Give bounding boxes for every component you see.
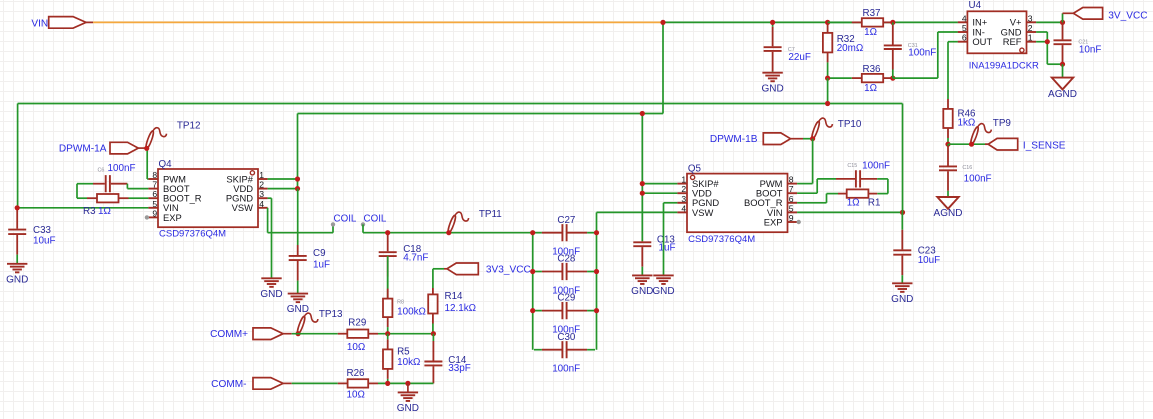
svg-text:TP12: TP12 (177, 120, 201, 131)
net flag COMM- (211, 378, 292, 391)
junction VIN C33 (15, 205, 20, 210)
svg-text:3: 3 (259, 189, 264, 199)
svg-text:4: 4 (962, 13, 967, 23)
svg-text:COIL: COIL (334, 213, 357, 224)
wire V+ to node (1036, 21, 1062, 23)
wire VDD drop to Q4 (297, 114, 299, 189)
svg-text:100nF: 100nF (108, 163, 136, 174)
resistor R32 (823, 22, 863, 78)
wire VIN top right (663, 21, 958, 23)
svg-text:3: 3 (681, 194, 686, 204)
value C6 100nF (108, 163, 136, 174)
net label COIL A (334, 213, 357, 224)
wire COMM- b (378, 382, 433, 384)
junction Q5 VIN (900, 210, 905, 215)
capacitor C31 (884, 22, 937, 78)
svg-text:3V3_VCC: 3V3_VCC (486, 264, 531, 275)
wire COMM+ b (378, 333, 433, 335)
wire 3V3_VCC left (433, 268, 444, 270)
svg-text:100nF: 100nF (908, 47, 936, 58)
junction stack right 310.6 (594, 308, 599, 313)
capacitor C29 (534, 293, 595, 336)
junction REF-GND (1045, 39, 1050, 44)
capacitor C21 (1054, 22, 1102, 64)
resistor R5 (383, 334, 420, 384)
wire Q5 BOOT elbow h (797, 192, 817, 194)
resistor R36 (828, 64, 893, 94)
test point TP11 (447, 209, 502, 233)
svg-text:R29: R29 (348, 318, 366, 329)
svg-text:R5: R5 (397, 346, 410, 357)
resistor R37 (828, 8, 893, 38)
ground GND C23 (891, 283, 913, 305)
wire OUT h (948, 41, 958, 43)
wire VSW to COIL (268, 232, 333, 234)
svg-text:GND: GND (397, 403, 419, 414)
wire Q5 PGND a (664, 202, 678, 204)
capacitor C13 (633, 234, 675, 275)
junction stack left 310.6 (530, 308, 535, 313)
svg-text:100nF: 100nF (552, 364, 580, 375)
wire C21 to AGND (1062, 64, 1064, 77)
capacitor C33 (8, 208, 55, 264)
test point TP13 (296, 309, 343, 334)
svg-text:GND: GND (891, 294, 913, 305)
svg-text:U4: U4 (969, 0, 982, 11)
ground GND C33 (6, 264, 28, 286)
wire IN- h (938, 31, 958, 33)
junction R37 right (890, 20, 895, 25)
svg-text:1Ω: 1Ω (864, 83, 877, 94)
test point TP12 (145, 120, 201, 149)
svg-text:INA199A1DCKR: INA199A1DCKR (969, 60, 1039, 71)
junction stack left 271.5 (530, 269, 535, 274)
ground AGND C21 (1048, 78, 1077, 100)
net flag 3V3_VCC (444, 263, 531, 275)
svg-text:GND: GND (260, 289, 282, 300)
svg-text:100kΩ: 100kΩ (397, 306, 426, 317)
svg-text:VIN: VIN (31, 19, 48, 30)
junction VIN orange-green (660, 20, 665, 25)
junction net at Q5 (640, 111, 645, 116)
wire C6 left (77, 183, 93, 185)
wire COMM+ a (292, 333, 338, 335)
svg-text:Q5: Q5 (688, 164, 702, 175)
wire U4 REF (1036, 41, 1047, 43)
capacitor C27 (534, 215, 595, 258)
svg-text:COIL: COIL (364, 213, 387, 224)
svg-text:6: 6 (152, 189, 157, 199)
svg-text:2: 2 (1028, 23, 1033, 33)
svg-text:1: 1 (1028, 33, 1033, 43)
capacitor C28 (534, 254, 595, 297)
wire C6 to BOOT (127, 188, 148, 190)
junction Q5 pin1 (640, 181, 645, 186)
svg-text:GND: GND (631, 286, 653, 297)
svg-text:TP11: TP11 (479, 209, 502, 220)
net flag DPWM-1B (710, 133, 803, 145)
svg-text:9: 9 (152, 208, 157, 218)
svg-text:TP9: TP9 (993, 118, 1012, 129)
wire VIN rail down (902, 104, 904, 213)
junction COMM+ R5 (385, 331, 390, 336)
svg-text:1uF: 1uF (313, 259, 330, 270)
junction Q5 pin2 (640, 191, 645, 196)
junction C7 (770, 20, 775, 25)
svg-text:10nF: 10nF (1079, 45, 1102, 56)
svg-text:EXP: EXP (764, 216, 783, 227)
junction stack left 232.7 (530, 230, 535, 235)
net flag DPWM-1A (59, 142, 147, 154)
svg-text:TP10: TP10 (838, 119, 862, 130)
no-connect dot Q4 EXP (145, 215, 149, 219)
svg-text:I_SENSE: I_SENSE (1023, 140, 1066, 151)
svg-text:1kΩ: 1kΩ (958, 118, 976, 129)
svg-text:COMM+: COMM+ (210, 329, 248, 340)
svg-text:TP13: TP13 (319, 309, 343, 320)
wire I_SENSE (948, 143, 988, 145)
svg-text:VSW: VSW (232, 202, 254, 213)
capacitor C7 (764, 22, 811, 72)
svg-text:C29: C29 (557, 293, 575, 304)
IC Q5 CSD97376Q4M synchronous buck power stage (677, 164, 797, 245)
svg-text:7: 7 (152, 180, 157, 190)
svg-text:C9: C9 (313, 248, 326, 259)
wire C6 right elbow v (126, 184, 128, 189)
svg-text:REF: REF (1003, 36, 1022, 47)
svg-text:AGND: AGND (934, 208, 963, 219)
svg-text:1Ω: 1Ω (847, 198, 860, 209)
capacitor C15 (836, 161, 890, 188)
junction C21 bottom (1060, 62, 1065, 67)
resistor R8 (383, 256, 426, 334)
svg-text:4.7nF: 4.7nF (403, 253, 428, 264)
ground AGND C16 (934, 197, 963, 219)
junction stack right 232.7 (594, 230, 599, 235)
capacitor C18 (379, 233, 429, 299)
wire COIL stub up A (332, 224, 334, 232)
junction C18 top (385, 230, 390, 235)
junction R36 left (825, 76, 830, 81)
svg-text:5: 5 (789, 203, 794, 213)
svg-text:1Ω: 1Ω (864, 27, 877, 38)
node COIL A (331, 222, 335, 226)
svg-text:1Ω: 1Ω (98, 206, 111, 217)
capacitor C30 (534, 332, 595, 375)
wire Q4 SKIP# to VDD rail (268, 178, 298, 180)
svg-text:CSD97376Q4M: CSD97376Q4M (688, 234, 755, 245)
junction stack right 271.5 (594, 269, 599, 274)
wire U4 GND v (1046, 32, 1048, 64)
svg-text:100nF: 100nF (964, 173, 992, 184)
svg-text:10Ω: 10Ω (347, 389, 365, 400)
wire Q5 VIN right (797, 211, 902, 213)
svg-text:8: 8 (152, 170, 157, 180)
svg-text:8: 8 (789, 175, 794, 185)
wire COMM- a (292, 382, 338, 384)
svg-text:1uF: 1uF (659, 243, 676, 254)
capacitor C6 (93, 175, 127, 192)
svg-text:AGND: AGND (1048, 89, 1077, 100)
wire Q4 PGND down2 (271, 198, 273, 278)
svg-text:2: 2 (259, 180, 264, 190)
wire Q4 PGND down1 (268, 197, 272, 199)
junction TP11 (446, 230, 451, 235)
wire COIL stub down B (362, 224, 364, 232)
net flag 3V_VCC (1063, 8, 1148, 22)
svg-text:10uF: 10uF (33, 235, 56, 246)
svg-text:R8: R8 (397, 300, 404, 306)
svg-text:DPWM-1A: DPWM-1A (59, 144, 107, 155)
svg-text:C16: C16 (962, 165, 972, 171)
svg-text:R14: R14 (445, 291, 464, 302)
IC U4 INA199A1DCKR current sense amplifier (958, 0, 1039, 71)
junction rail R32 (825, 101, 830, 106)
label C6 (98, 167, 105, 173)
resistor R29 (338, 318, 378, 353)
svg-text:R1: R1 (868, 198, 881, 209)
ground GND Q4 PGND (260, 278, 282, 300)
wire U4 GND h2 (1047, 63, 1062, 65)
resistor R14 (428, 288, 476, 334)
wire R1 elbow v (826, 194, 828, 203)
resistor R26 (338, 368, 378, 400)
wire DPWM-1B to dot (803, 138, 813, 140)
svg-text:C6: C6 (98, 167, 105, 173)
ground GND C7 (761, 73, 783, 95)
wire DPWM-1A to PWM (146, 148, 148, 179)
wire PWM stub join (147, 178, 148, 180)
wire Q4 VSW elbow (267, 208, 269, 233)
svg-text:R36: R36 (863, 64, 882, 75)
svg-text:R37: R37 (863, 8, 881, 19)
svg-text:22uF: 22uF (788, 52, 811, 63)
svg-text:12.1kΩ: 12.1kΩ (445, 303, 477, 314)
capacitor C9 (289, 245, 330, 294)
wire C15-R1 U top (877, 178, 888, 180)
wire C15-R1 U bottom (877, 193, 888, 195)
junction TP9 (969, 142, 974, 147)
wire COIL main (363, 232, 533, 234)
wire Q4 VDD to rail (268, 188, 298, 190)
wire GND branch (407, 383, 409, 392)
wire net VDD horizontal (298, 113, 664, 115)
svg-text:3V_VCC: 3V_VCC (1108, 11, 1147, 22)
test point TP9 (970, 118, 1012, 145)
svg-text:2: 2 (681, 184, 686, 194)
svg-text:EXP: EXP (163, 212, 182, 223)
svg-text:9: 9 (789, 213, 794, 223)
svg-text:Q4: Q4 (159, 159, 173, 170)
svg-text:6: 6 (962, 33, 967, 43)
wire R3 to BOOT_R (137, 197, 148, 199)
junction COMM+ R14 (431, 331, 436, 336)
junction V+ node (1060, 20, 1065, 25)
svg-text:C27: C27 (557, 215, 575, 226)
wire Q5 SKIP# (642, 183, 677, 185)
svg-text:33pF: 33pF (448, 363, 471, 374)
ground GND COMM- (397, 392, 419, 414)
wire VIN vertical drop (662, 22, 664, 113)
svg-text:10kΩ: 10kΩ (397, 357, 420, 368)
resistor R46 (943, 99, 976, 144)
svg-text:1: 1 (259, 170, 264, 180)
wire VIN long horizontal (18, 103, 903, 105)
svg-text:5: 5 (152, 199, 157, 209)
net flag I_SENSE (985, 138, 1066, 151)
test point TP10 (811, 118, 862, 139)
capacitor C23 (893, 212, 940, 283)
wire R32 bottom to rail (827, 78, 829, 103)
net label COIL B (364, 213, 387, 224)
svg-text:4: 4 (681, 203, 686, 213)
svg-text:7: 7 (789, 184, 794, 194)
wire VIN orange (93, 21, 663, 23)
svg-text:VSW: VSW (692, 207, 714, 218)
wire cap stack left rail (532, 233, 534, 350)
svg-text:1: 1 (681, 175, 686, 185)
svg-text:DPWM-1B: DPWM-1B (710, 134, 758, 145)
resistor R3 (77, 194, 137, 217)
svg-text:6: 6 (789, 194, 794, 204)
capacitor C14 (424, 334, 470, 384)
svg-text:C15: C15 (847, 163, 857, 169)
wire Q5 VDD (642, 192, 677, 194)
no-connect dot Q5 EXP (797, 220, 801, 224)
capacitor C16 (939, 144, 992, 197)
svg-text:3: 3 (1028, 13, 1033, 23)
svg-text:GND: GND (761, 83, 783, 94)
net flag VIN (31, 17, 93, 30)
ground GND Q5 PGND (652, 275, 674, 297)
svg-text:100nF: 100nF (862, 161, 890, 172)
wire cap stack right rail (596, 212, 598, 349)
wire OUT down (947, 42, 949, 99)
wire Q5 VSW to stack (597, 211, 678, 213)
svg-text:COMM-: COMM- (211, 379, 246, 390)
wire IN- v (937, 32, 939, 78)
svg-text:C30: C30 (557, 332, 576, 343)
IC Q4 CSD97376Q4M synchronous buck power stage (148, 159, 267, 240)
wire 3V3_VCC down (432, 269, 434, 288)
svg-text:20mΩ: 20mΩ (837, 43, 864, 54)
wire U4 GND h1 (1036, 31, 1047, 33)
wire VIN to Q4 pin5 (18, 207, 149, 209)
wire R1 left (827, 193, 839, 195)
junction DPWM-1A (144, 146, 149, 151)
junction Q4 pin2 (295, 186, 300, 191)
svg-text:GND: GND (6, 274, 28, 285)
junction DPWM-1B (810, 136, 815, 141)
net flag COMM+ (210, 328, 292, 340)
junction Q4 pin1 (295, 176, 300, 181)
wire DPWM-1B down (812, 139, 814, 184)
wire C15-R1 U right v (887, 179, 889, 194)
wire IN- to R36 (893, 77, 938, 79)
svg-text:OUT: OUT (972, 36, 992, 47)
ground GND C9 (287, 294, 309, 316)
wire VDD drop to Q5 (641, 114, 643, 242)
wire C6-R3 left vertical (76, 184, 78, 199)
svg-text:CSD97376Q4M: CSD97376Q4M (159, 229, 226, 240)
wire Q5 BOOT elbow v (816, 179, 818, 193)
node COIL B (361, 222, 365, 226)
wire C15 left (817, 178, 836, 180)
wire to Q5 PWM (797, 183, 813, 185)
junction R32 top (825, 20, 830, 25)
wire VDD to C9 (297, 189, 299, 245)
resistor R1 (838, 189, 880, 208)
svg-text:10Ω: 10Ω (347, 342, 365, 353)
junction COMM- R5 (385, 381, 390, 386)
junction TP13 (296, 331, 301, 336)
wire VIN left vertical (17, 104, 19, 208)
wire 3V_VCC up (1062, 13, 1064, 22)
wire to Q5 BOOT_R (797, 202, 826, 204)
svg-text:10uF: 10uF (918, 255, 941, 266)
wire Q5 PGND b (663, 203, 665, 276)
junction COMM- GND (405, 381, 410, 386)
svg-text:4: 4 (259, 199, 264, 209)
svg-text:5: 5 (962, 23, 967, 33)
svg-text:R3: R3 (83, 206, 96, 217)
junction R46 bottom (945, 142, 950, 147)
ground GND C13 (631, 275, 653, 297)
svg-text:GND: GND (652, 286, 674, 297)
junction R36 right (890, 76, 895, 81)
svg-text:R26: R26 (347, 368, 366, 379)
svg-text:C28: C28 (557, 254, 576, 265)
